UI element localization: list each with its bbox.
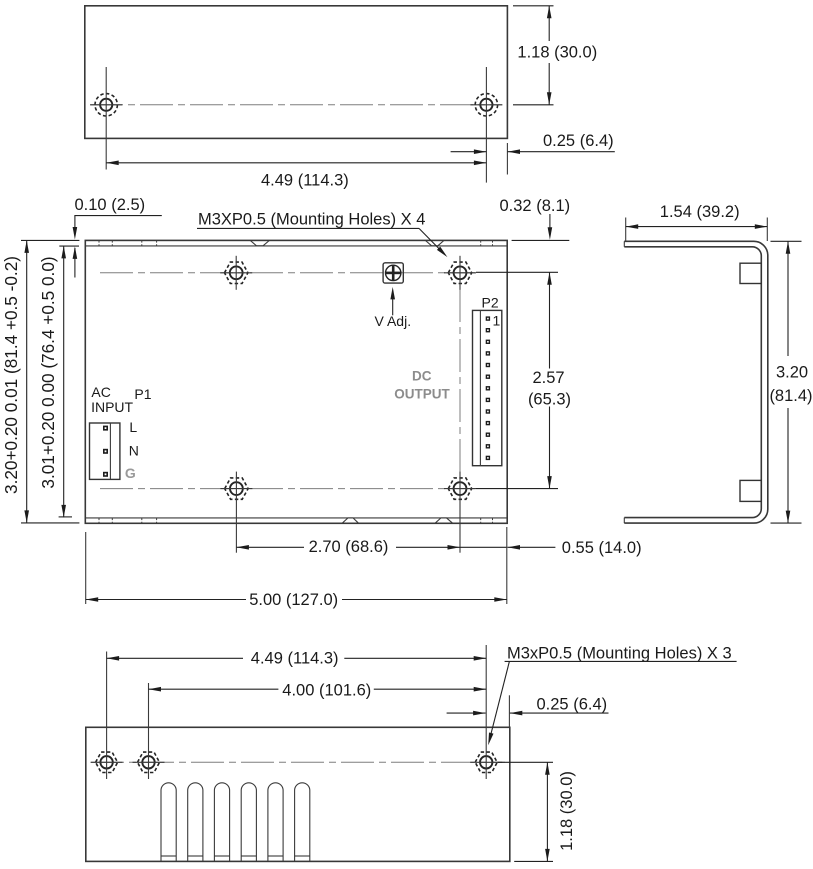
front view: mounting hole top-left <box>225 262 248 283</box>
front view: top flange inner edge <box>85 245 507 247</box>
dimension 1.54 (39.2) <box>625 218 627 242</box>
front view: bottom flange inner edge <box>85 517 507 519</box>
bottom view: hole 3 vertical extension <box>485 645 487 779</box>
dimension 0.25 (6.4) bottom view <box>508 695 510 726</box>
dimension 5.00 (127.0) <box>85 532 87 604</box>
connector P1 outline <box>90 423 120 479</box>
svg-text:3.20+0.20 0.01 (81.4 +0.5 -0.2: 3.20+0.20 0.01 (81.4 +0.5 -0.2) <box>1 256 21 494</box>
V Adj leader arrow <box>392 291 394 315</box>
svg-text:4.00 (101.6): 4.00 (101.6) <box>282 682 371 700</box>
dimension 0.25 (6.4) top view <box>506 143 508 175</box>
svg-text:M3xP0.5 (Mounting Holes) X 3: M3xP0.5 (Mounting Holes) X 3 <box>507 644 732 662</box>
side view: top clip tab <box>740 263 761 283</box>
svg-text:AC: AC <box>91 384 110 400</box>
svg-text:P2: P2 <box>482 295 499 311</box>
front view: mounting hole bottom-left <box>225 478 248 499</box>
bottom view: mounting hole 1 <box>96 752 118 772</box>
dimension 2.57 (65.3) <box>476 271 558 273</box>
svg-text:0.55 (14.0): 0.55 (14.0) <box>562 539 642 557</box>
dimension 4.00 (101.6) bottom view <box>149 688 279 690</box>
bottom view: mounting hole 2 <box>138 752 160 772</box>
dimension 1.18 (30.0) top view <box>513 5 554 7</box>
connector P1 pins <box>103 426 108 431</box>
front view: bottom horizontal centerline <box>100 488 475 490</box>
front view: top horizontal centerline <box>100 272 475 274</box>
bottom view: hole 2 vertical extension <box>148 683 150 779</box>
svg-text:P1: P1 <box>134 386 151 402</box>
front view: top flange slot marks <box>98 240 100 246</box>
svg-text:L: L <box>129 419 137 435</box>
svg-text:0.10 (2.5): 0.10 (2.5) <box>75 196 146 214</box>
front view: bottom flange notch left <box>342 518 358 523</box>
front view: bottom-right hole vertical extension <box>459 472 461 553</box>
front view: chassis outline <box>85 240 507 523</box>
svg-text:1.18 (30.0): 1.18 (30.0) <box>558 771 576 851</box>
svg-text:M3XP0.5 (Mounting Holes) X 4: M3XP0.5 (Mounting Holes) X 4 <box>198 211 425 229</box>
svg-text:0.32 (8.1): 0.32 (8.1) <box>500 197 571 215</box>
connector P2 pins <box>486 316 490 320</box>
front view: mounting hole top-right <box>448 262 471 283</box>
svg-text:G: G <box>125 465 136 481</box>
dimension 2.70 (68.6) <box>236 546 304 548</box>
svg-text:OUTPUT: OUTPUT <box>394 386 450 401</box>
bottom view: mounting hole 3 <box>475 752 497 772</box>
svg-text:2.70 (68.6): 2.70 (68.6) <box>309 538 389 556</box>
leader to bottom hole 3 <box>489 661 510 742</box>
svg-text:DC: DC <box>412 368 432 383</box>
side view: left end caps <box>623 241 625 247</box>
side view: bottom clip tab <box>740 480 761 501</box>
dimension 1.18 (30.0) bottom view <box>498 761 553 763</box>
connector P2 outline <box>473 310 502 465</box>
svg-text:V Adj.: V Adj. <box>375 313 412 329</box>
bottom view: horizontal centerline <box>91 761 505 763</box>
svg-text:1.18 (30.0): 1.18 (30.0) <box>517 43 597 61</box>
bottom view: ventilation slots <box>161 783 176 862</box>
svg-text:5.00 (127.0): 5.00 (127.0) <box>249 591 338 609</box>
svg-text:1.54 (39.2): 1.54 (39.2) <box>660 203 740 221</box>
svg-text:INPUT: INPUT <box>91 399 133 415</box>
potentiometer V Adj square <box>383 263 403 283</box>
dimension 3.01 left side <box>59 245 79 247</box>
front view: top flange notch right <box>426 241 444 246</box>
svg-text:0.25 (6.4): 0.25 (6.4) <box>537 696 608 714</box>
dimension 4.49 (114.3) top view <box>106 162 486 164</box>
svg-text:(65.3): (65.3) <box>528 391 571 409</box>
front view: bottom-left hole vertical extension <box>235 472 237 553</box>
leader to top-right hole <box>419 228 445 254</box>
dimension 4.49 (114.3) bottom view <box>107 657 243 659</box>
svg-text:4.49 (114.3): 4.49 (114.3) <box>251 650 339 668</box>
top view: mounting hole right <box>475 94 497 116</box>
svg-text:N: N <box>129 443 139 459</box>
front view: mounting hole bottom-right <box>448 478 471 499</box>
dimension 3.20 (81.4) side view <box>771 240 802 242</box>
front view: right vertical centerline <box>459 289 461 472</box>
svg-text:4.49 (114.3): 4.49 (114.3) <box>261 171 349 189</box>
front view: bottom flange slot marks <box>98 518 100 523</box>
top view: right hole vertical extension line <box>485 67 487 183</box>
svg-text:(81.4): (81.4) <box>769 387 812 405</box>
top view: chassis cover outline <box>85 6 508 139</box>
side view: channel inner profile <box>624 247 761 518</box>
side view: channel outer profile <box>624 241 768 523</box>
svg-text:0.25 (6.4): 0.25 (6.4) <box>543 132 614 150</box>
svg-text:3.01+0.20 0.00 (76.4 +0.5 0.0): 3.01+0.20 0.00 (76.4 +0.5 0.0) <box>38 256 58 488</box>
dimension 3.20 left side <box>21 239 79 241</box>
front view: bottom flange notch right <box>435 518 453 523</box>
top view: mounting hole left <box>95 94 117 116</box>
bottom view: chassis outline <box>86 727 510 861</box>
front view: top flange notch left <box>250 241 269 246</box>
dimension 0.55 (14.0) <box>460 546 507 548</box>
svg-text:1: 1 <box>493 312 501 328</box>
top view: left hole vertical extension line <box>105 67 107 170</box>
bottom view: hole 1 vertical extension <box>106 652 108 780</box>
svg-text:2.57: 2.57 <box>532 369 564 387</box>
top view: horizontal centerline <box>90 104 502 106</box>
svg-text:3.20: 3.20 <box>776 363 808 381</box>
